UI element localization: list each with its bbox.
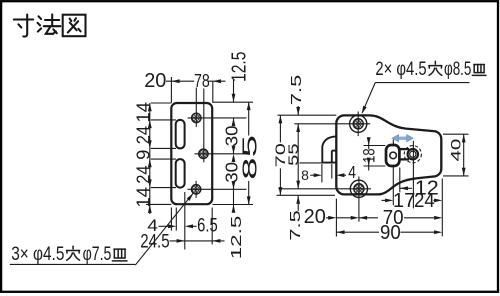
svg-text:8: 8 bbox=[301, 167, 309, 183]
svg-text:18: 18 bbox=[360, 148, 379, 163]
svg-text:40: 40 bbox=[449, 138, 464, 161]
svg-text:14: 14 bbox=[134, 187, 154, 208]
svg-text:14: 14 bbox=[134, 102, 154, 123]
svg-text:85: 85 bbox=[238, 135, 261, 180]
svg-text:55: 55 bbox=[286, 143, 301, 166]
svg-text:9: 9 bbox=[134, 150, 154, 160]
svg-text:20: 20 bbox=[144, 70, 166, 92]
svg-text:24.5: 24.5 bbox=[140, 231, 170, 253]
svg-text:90: 90 bbox=[380, 222, 401, 244]
svg-text:20: 20 bbox=[304, 206, 326, 228]
svg-text:6.5: 6.5 bbox=[197, 216, 218, 237]
svg-text:4: 4 bbox=[348, 162, 356, 182]
svg-text:7.5: 7.5 bbox=[287, 210, 304, 241]
svg-text:24: 24 bbox=[134, 165, 154, 183]
svg-text:φ8.5: φ8.5 bbox=[444, 58, 471, 80]
svg-text:78: 78 bbox=[194, 70, 210, 91]
svg-text:2× φ4.5: 2× φ4.5 bbox=[375, 58, 426, 80]
svg-text:φ7.5: φ7.5 bbox=[83, 243, 112, 265]
svg-text:24: 24 bbox=[414, 190, 435, 212]
svg-text:12.5: 12.5 bbox=[228, 216, 245, 260]
svg-text:12.5: 12.5 bbox=[228, 52, 250, 83]
svg-text:7.5: 7.5 bbox=[288, 75, 305, 106]
svg-text:3× φ4.5: 3× φ4.5 bbox=[11, 243, 64, 265]
svg-text:24: 24 bbox=[134, 126, 154, 144]
